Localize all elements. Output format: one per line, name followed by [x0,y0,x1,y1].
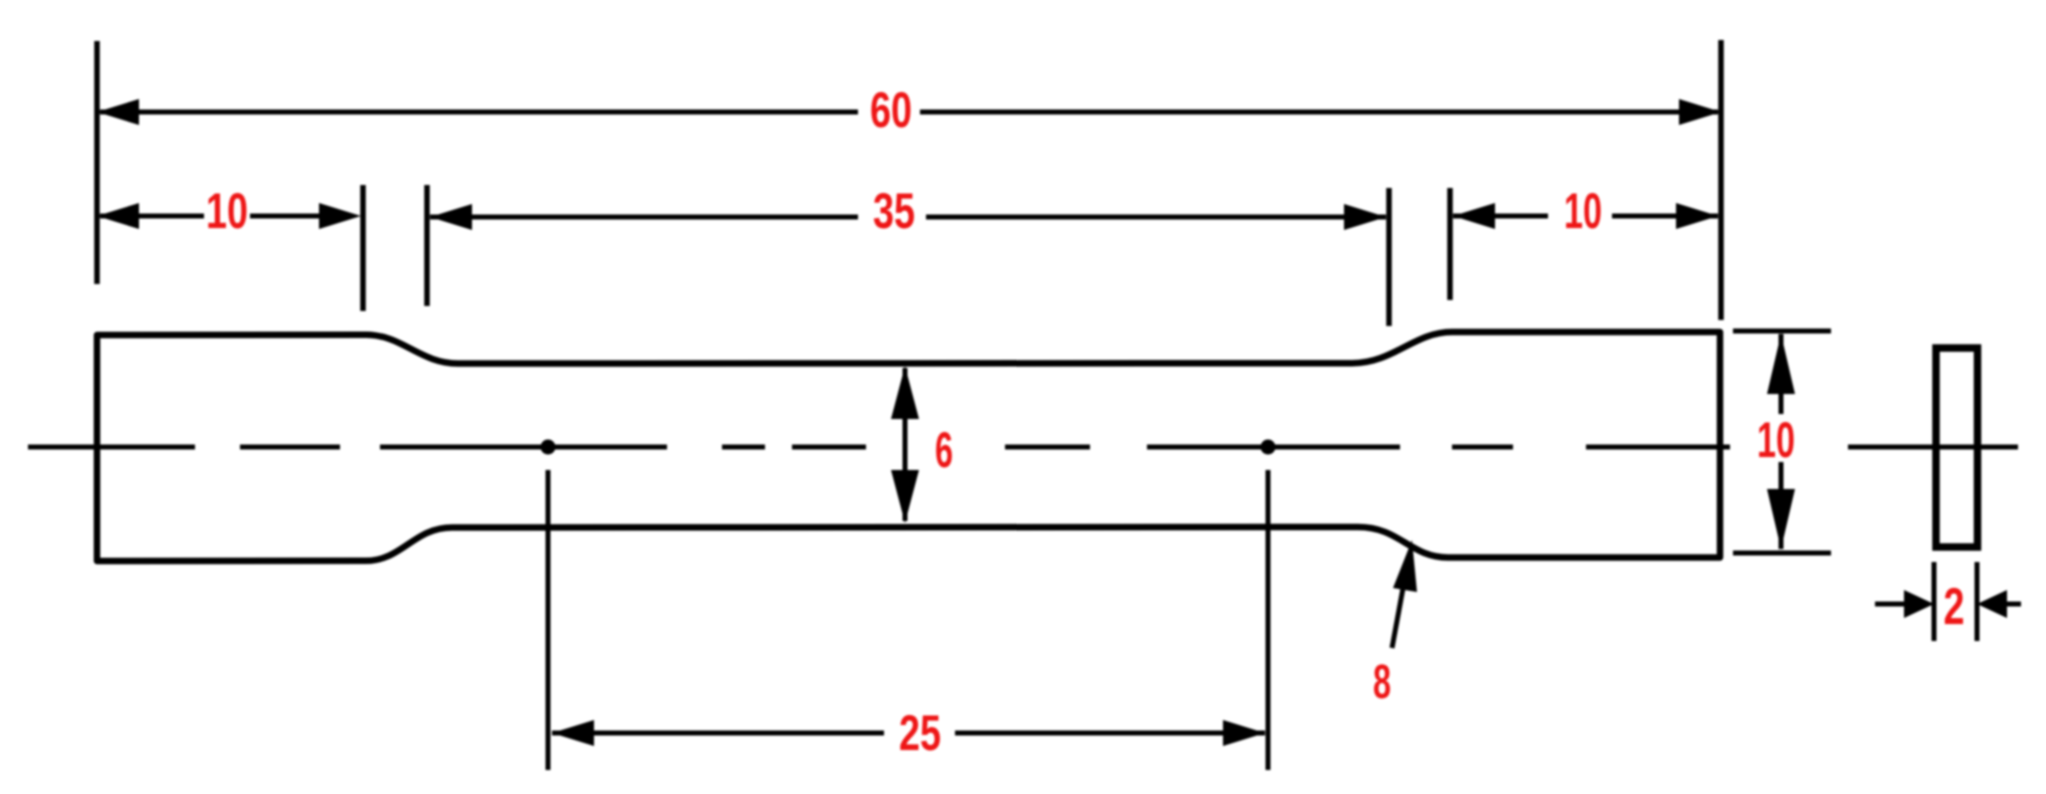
specimen outline [97,332,1720,561]
tick C [1386,188,1392,326]
dimension 10 left [97,183,361,239]
dimension 35 [430,183,1386,239]
leader 8 [1373,540,1417,709]
dimension 25 [552,705,1265,761]
svg-text:10: 10 [1757,412,1795,468]
gauge dot left [541,440,556,455]
tick D [1447,188,1453,300]
dimension 60 [97,82,1721,138]
centerline [28,445,2018,450]
svg-text:6: 6 [935,422,953,478]
gauge extension left [546,470,551,770]
svg-text:35: 35 [873,183,915,239]
tick B [424,185,430,306]
svg-text:8: 8 [1373,656,1391,709]
dimension 2 [1875,562,2021,641]
svg-text:10: 10 [1564,183,1602,239]
svg-text:2: 2 [1944,578,1965,636]
extension line right [1718,40,1724,320]
gauge dot right [1261,440,1276,455]
svg-text:10: 10 [206,183,248,239]
dimension 6 vertical [891,366,953,523]
svg-text:60: 60 [870,82,912,138]
cross-section rectangle [1936,348,1978,547]
tick A [360,185,366,311]
dimension 10 right [1453,183,1718,239]
extension line left [94,41,100,284]
gauge extension right [1266,470,1271,770]
svg-text:25: 25 [899,705,941,761]
dimension 10 vertical right [1733,331,1831,553]
